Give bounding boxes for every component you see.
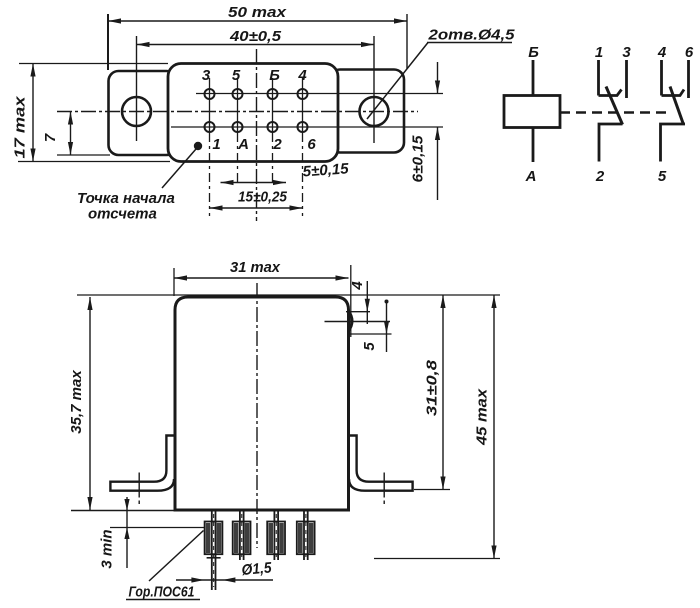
wire terminal 2 [599,124,623,162]
coil winding rectangle [504,96,560,128]
svg-text:1: 1 [212,136,220,153]
pin 1 [205,122,215,132]
mounting hole left [122,97,151,126]
wire terminal 5 [661,124,686,162]
pin column line 1 [209,78,211,133]
svg-text:4: 4 [297,67,307,84]
dim 50max line [108,20,407,22]
pin row line top [196,93,443,95]
pin assembly 4 [297,511,315,560]
mounting bracket right [348,436,413,491]
dim 17max extension bottom [18,161,170,163]
dim 6 line lower [437,127,439,200]
svg-text:3 min: 3 min [99,529,116,568]
fixed contact hook 2 [662,90,685,96]
svg-text:40±0,5: 40±0,5 [229,28,282,45]
pin 2 [268,122,278,132]
dim 50max extension right [406,14,408,69]
solder label leader [149,531,204,582]
contact blade 2 [670,87,684,125]
svg-text:Б: Б [528,44,539,61]
contact blade 1 [606,87,623,125]
svg-text:15±0,25: 15±0,25 [238,189,288,206]
dim 45max extension [374,558,500,560]
svg-text:2отв.Ø4,5: 2отв.Ø4,5 [427,27,515,44]
mounting bracket left [110,436,174,491]
svg-text:5: 5 [361,342,378,351]
actuator dashed link [560,111,668,113]
svg-text:Ø1,5: Ø1,5 [241,559,273,579]
dim 5 line [386,300,388,352]
svg-text:35,7 max: 35,7 max [68,370,85,434]
pin 6 [298,122,308,132]
lug bottom line [325,321,391,323]
svg-text:4: 4 [349,281,366,291]
pin assembly 2 [233,511,251,560]
svg-text:2: 2 [595,168,605,185]
horizontal centerline [57,111,418,113]
wire terminal 4 [660,60,663,96]
lug extension line [349,333,392,335]
pin A [233,122,243,132]
dim 40 line [137,44,375,46]
hole centerline / 40 extension right [373,36,375,143]
svg-text:5±0,15: 5±0,15 [302,160,350,180]
pin B top [268,89,278,99]
svg-text:Гор.ПОС61: Гор.ПОС61 [129,584,195,601]
solder label underline [126,599,200,601]
dim 15 line [210,207,303,209]
dim 3min extension [110,527,206,529]
wire terminal 1 [597,60,600,96]
svg-text:5: 5 [232,67,241,84]
dim 4 line [366,281,368,324]
body vertical centerline [256,49,258,221]
dim 50max extension left [107,14,109,70]
dim 31max line [174,277,349,279]
svg-text:1: 1 [595,44,603,61]
svg-text:31±0,8: 31±0,8 [424,359,441,416]
pin 4 [298,89,308,99]
svg-text:7: 7 [42,133,59,142]
wire terminal 3 [625,60,628,98]
dim dia1.5 line [176,579,273,581]
dim 31max extension left [173,268,175,296]
hole label leader [367,43,428,120]
bracket hole centerline right [383,473,385,498]
dim 31pm08 line [442,295,444,490]
relay top view: left mounting flange [109,71,177,155]
hole label underline [427,42,512,44]
svg-text:отсчета: отсчета [88,206,157,223]
fixed contact hook 1 [599,90,622,96]
dim 35.7max line [89,297,91,510]
front view: vertical centerline [256,283,258,548]
reference dot [194,142,202,150]
svg-text:5: 5 [658,168,667,185]
front view: body outline [175,297,349,510]
svg-text:Точка начала: Точка начала [77,190,175,207]
svg-text:3: 3 [202,67,211,84]
front view: top extension line [77,294,500,296]
dim 6 line upper [437,62,439,94]
hole centerline / 40 extension left [136,36,138,141]
wire terminal 6 [687,60,690,98]
side lug bump [349,311,353,331]
dim 7 line [70,112,72,156]
front view: bottom extension line [71,510,176,512]
svg-text:3: 3 [622,44,631,61]
svg-text:4: 4 [657,44,667,61]
pin column line 4 [302,78,304,133]
svg-text:31 max: 31 max [230,259,281,276]
wire coil terminal B [532,60,535,96]
svg-text:17 max: 17 max [12,96,29,159]
svg-text:6: 6 [307,136,316,153]
pin 5 [233,89,243,99]
dim 31max extension right [350,265,352,337]
relay top view: right mounting flange [330,70,404,153]
lug top line [346,311,370,313]
pin column line 2 [237,78,239,133]
wire coil terminal A [532,128,535,163]
svg-text:6±0,15: 6±0,15 [410,135,427,183]
pin row line bottom [171,126,443,128]
dim 45max line [493,295,495,559]
svg-text:2: 2 [272,136,282,153]
pin assembly 1 [205,511,223,590]
pin 3 [205,89,215,99]
svg-text:А: А [525,168,537,185]
svg-text:А: А [237,136,249,153]
dim 7 extension bottom [57,154,110,156]
svg-text:45 max: 45 max [474,388,491,446]
svg-text:Б: Б [269,67,280,84]
reference leader [162,149,196,188]
dim 17max extension top [19,63,168,65]
dim 5 line [221,182,287,184]
mounting hole right [360,97,389,126]
bracket hole centerline left [138,473,140,498]
svg-text:50 max: 50 max [228,4,287,21]
relay top view: body outline [168,64,338,162]
svg-text:6: 6 [685,44,694,61]
pin assembly 3 [267,511,285,560]
pin column line 3 [272,78,274,133]
dim 31pm08 extension [414,489,450,491]
dim 3min line [126,497,128,568]
dim 17max line [32,64,34,162]
